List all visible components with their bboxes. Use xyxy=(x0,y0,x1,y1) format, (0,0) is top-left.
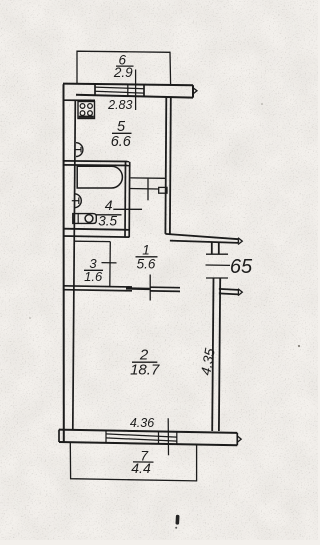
wall top band outer top xyxy=(63,84,193,86)
wall top inner sill left xyxy=(64,99,95,101)
entrance door top tick xyxy=(206,253,228,255)
wall right outer line lower xyxy=(219,278,220,431)
door bathroom line xyxy=(129,188,159,191)
fraction line room 7 xyxy=(133,461,154,463)
wall bathroom bottom upper line xyxy=(64,229,130,230)
svg-text:1.6: 1.6 xyxy=(84,269,103,284)
door bathroom leaf xyxy=(159,187,167,193)
svg-text:18.7: 18.7 xyxy=(130,361,160,378)
wall bathroom right inner line xyxy=(124,162,127,237)
wall top band end cap xyxy=(192,85,194,97)
ink mark bottom xyxy=(175,515,179,529)
label room 4 xyxy=(98,197,117,228)
wall hall top upper line xyxy=(165,234,238,239)
dimension line 4.36 xyxy=(167,418,169,455)
leader room 4 xyxy=(113,208,142,210)
window room 2 right tick xyxy=(176,432,178,444)
wall stair upper line xyxy=(219,289,239,290)
wall bottom band outer top xyxy=(59,430,237,433)
label room 2 xyxy=(130,347,160,379)
balcony room 6 outline xyxy=(77,51,171,84)
wall left outer xyxy=(63,84,65,441)
closet room 3 right line xyxy=(109,242,112,287)
wall stair end cap xyxy=(237,290,239,295)
wall stair lower line xyxy=(219,293,239,294)
wall hall top lower line xyxy=(170,241,239,243)
label room 7 xyxy=(131,447,151,476)
wall partition rooms 1-2 upper left xyxy=(64,286,133,287)
wall bathroom right outer line xyxy=(128,162,131,237)
window room 2 line 1 xyxy=(106,434,177,437)
dimension line 2.83 xyxy=(135,70,137,111)
svg-text:2.9: 2.9 xyxy=(113,65,133,80)
bathtub xyxy=(77,166,122,188)
wall bathroom top upper line xyxy=(63,160,129,163)
dirt speck right xyxy=(298,345,300,347)
label room 3 xyxy=(84,256,103,284)
window room 2 left tick xyxy=(105,431,107,443)
fraction line room 3 xyxy=(84,269,103,271)
window kitchen right tick xyxy=(143,84,145,97)
window room 2 mid tick xyxy=(158,431,160,443)
door bathroom tick xyxy=(147,179,149,201)
wall bathroom top lower line xyxy=(63,164,129,167)
fraction line room 6 xyxy=(116,65,134,67)
svg-text:5.6: 5.6 xyxy=(137,257,156,272)
wall bathroom bottom lower line xyxy=(64,236,130,237)
wall right outer line upper xyxy=(218,243,220,254)
svg-text:65: 65 xyxy=(230,256,253,278)
break mark top wall xyxy=(193,87,197,94)
wall kitchen right outer line xyxy=(169,97,172,234)
fraction line room 1 xyxy=(136,256,158,258)
label room 1 xyxy=(137,243,156,272)
svg-text:4: 4 xyxy=(105,197,113,213)
svg-text:3.5: 3.5 xyxy=(98,213,117,228)
svg-text:1: 1 xyxy=(142,243,150,258)
door bathroom jamb line xyxy=(131,177,166,179)
balcony room 7 outline xyxy=(70,442,196,481)
leader door 65 xyxy=(206,264,231,266)
toilet xyxy=(73,214,97,224)
label room 5 xyxy=(111,119,132,150)
break mark bottom wall xyxy=(237,436,241,443)
wall bottom band outer bottom xyxy=(59,442,237,445)
closet room 3 top line xyxy=(74,240,110,242)
wall right inner line upper xyxy=(211,242,213,254)
door room 3 dash xyxy=(102,262,117,264)
door room 2 leaf line xyxy=(126,287,150,290)
window kitchen left tick xyxy=(94,84,96,96)
fraction line room 5 xyxy=(112,132,132,134)
wall bottom band right cap xyxy=(236,433,238,445)
window kitchen mid tick xyxy=(127,84,129,97)
fraction line room 4 xyxy=(96,214,122,216)
kitchen sink xyxy=(76,143,83,157)
wall partition rooms 1-2 lower left xyxy=(64,290,133,291)
wall left inner xyxy=(73,100,76,430)
dirt speck left xyxy=(29,317,31,319)
wall top band inner bottom xyxy=(76,95,193,98)
window kitchen line 1 xyxy=(95,87,144,89)
svg-text:2.83: 2.83 xyxy=(107,98,132,112)
door room 2 tick xyxy=(149,275,151,301)
break mark stair wall xyxy=(238,289,242,296)
wall kitchen right inner line xyxy=(164,97,167,234)
stove xyxy=(78,102,95,119)
wall right inner line lower xyxy=(212,278,213,431)
svg-text:6.6: 6.6 xyxy=(111,134,132,150)
wall hall top end cap xyxy=(237,239,239,243)
dirt speck top right xyxy=(261,103,263,105)
wall partition rooms 1-2 lower right xyxy=(150,290,180,293)
break mark hall top wall xyxy=(238,238,242,245)
window kitchen line 2 xyxy=(95,91,144,93)
bathroom sink xyxy=(72,194,82,208)
entrance door bottom tick xyxy=(206,277,228,279)
wall bottom band left cap xyxy=(58,430,60,442)
wall partition rooms 1-2 upper right xyxy=(150,286,180,289)
label room 6 xyxy=(113,52,133,80)
window room 2 line 2 xyxy=(106,438,177,441)
svg-text:4.36: 4.36 xyxy=(130,416,154,430)
fraction line room 2 xyxy=(132,361,157,363)
